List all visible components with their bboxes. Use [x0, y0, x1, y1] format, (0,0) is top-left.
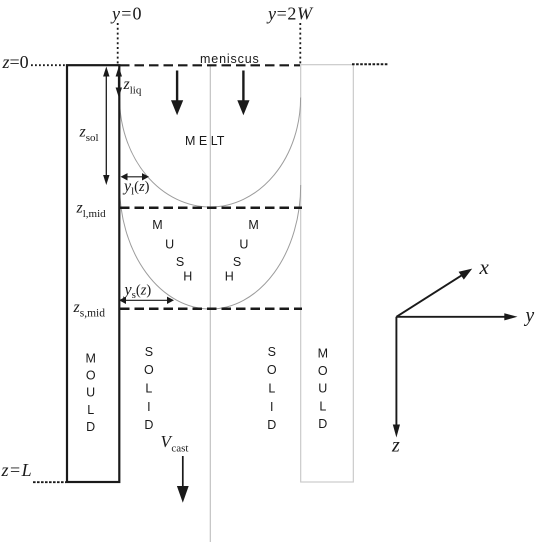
- y axis: [396, 313, 517, 320]
- svg-text:L: L: [145, 382, 152, 396]
- liquidus front curve y_l: [120, 98, 301, 208]
- meniscus dashed line: [120, 64, 300, 66]
- svg-text:U: U: [318, 382, 327, 396]
- z_sol double arrow: [103, 67, 109, 186]
- svg-text:z: z: [391, 435, 400, 457]
- svg-text:y: y: [524, 306, 535, 327]
- svg-text:ys(z): ys(z): [123, 282, 152, 302]
- svg-text:M: M: [85, 351, 95, 365]
- svg-text:U: U: [165, 237, 174, 251]
- svg-text:H: H: [183, 270, 192, 284]
- z_s,mid dashed line: [120, 308, 302, 311]
- svg-text:I: I: [270, 400, 273, 414]
- svg-text:S: S: [176, 255, 184, 269]
- svg-text:O: O: [318, 364, 328, 378]
- svg-text:M: M: [152, 218, 162, 232]
- svg-text:U: U: [239, 237, 248, 251]
- right mould (gray outline): [301, 65, 354, 482]
- svg-text:D: D: [86, 420, 95, 434]
- svg-text:z=0: z=0: [2, 52, 29, 72]
- z axis: [393, 317, 400, 438]
- MUSH label left: [152, 218, 192, 284]
- z=L dotted line: [33, 481, 66, 483]
- svg-text:y=0: y=0: [110, 4, 143, 24]
- svg-text:S: S: [268, 345, 276, 359]
- V_cast arrow: [177, 456, 189, 503]
- svg-text:H: H: [225, 270, 234, 284]
- svg-text:M E LT: M E LT: [185, 134, 225, 148]
- y_s(z) double arrow: [119, 297, 174, 304]
- svg-text:M: M: [318, 346, 328, 360]
- svg-text:O: O: [267, 363, 277, 377]
- MOULD label left: [85, 351, 95, 434]
- svg-text:x: x: [479, 255, 490, 279]
- svg-text:D: D: [144, 418, 153, 432]
- svg-text:M: M: [248, 218, 258, 232]
- melt pour arrow left: [171, 71, 183, 116]
- svg-text:S: S: [145, 345, 153, 359]
- svg-text:S: S: [233, 255, 241, 269]
- svg-text:L: L: [268, 382, 275, 396]
- z=0 dotted line: [31, 64, 66, 66]
- top-right dotted line: [352, 63, 388, 65]
- y=0 dotted line: [117, 23, 119, 64]
- MOULD label right: [318, 346, 328, 431]
- SOLID label right: [267, 345, 277, 432]
- svg-text:L: L: [319, 399, 326, 413]
- y=2W dotted line: [299, 23, 301, 64]
- svg-text:O: O: [144, 363, 154, 377]
- z_liq double arrow: [116, 67, 122, 98]
- svg-text:D: D: [267, 418, 276, 432]
- svg-text:meniscus: meniscus: [200, 52, 260, 66]
- svg-text:y=2W: y=2W: [266, 4, 314, 24]
- solidus front curve y_s: [120, 185, 301, 309]
- melt pour arrow right: [237, 71, 249, 116]
- svg-text:yl(z): yl(z): [122, 178, 150, 198]
- svg-text:U: U: [86, 386, 95, 400]
- svg-text:O: O: [86, 369, 96, 383]
- SOLID label left: [144, 345, 154, 432]
- svg-text:D: D: [318, 417, 327, 431]
- svg-text:I: I: [147, 400, 150, 414]
- left mould (black outline): [67, 65, 119, 482]
- y_l(z) double arrow: [121, 173, 150, 180]
- z_l,mid dashed line: [120, 207, 302, 210]
- centerline y=W (gray): [209, 65, 211, 543]
- svg-text:L: L: [87, 403, 94, 417]
- MUSH label right: [225, 218, 259, 284]
- svg-text:z=L: z=L: [1, 460, 34, 480]
- x axis: [396, 269, 472, 317]
